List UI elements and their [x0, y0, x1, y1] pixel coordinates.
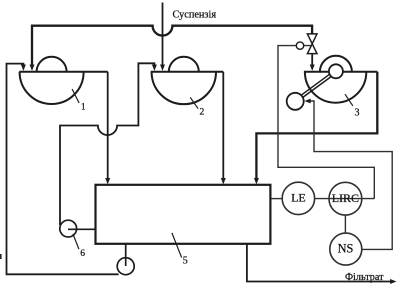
- svg-text:3: 3: [355, 108, 360, 119]
- svg-text:Фільтрат: Фільтрат: [345, 272, 384, 283]
- svg-text:LIRC: LIRC: [332, 191, 359, 205]
- svg-text:6: 6: [80, 249, 85, 259]
- svg-text:1: 1: [81, 101, 86, 111]
- svg-text:LE: LE: [291, 191, 306, 205]
- svg-text:NS: NS: [338, 242, 354, 256]
- svg-text:2: 2: [200, 108, 205, 118]
- svg-text:Суспензія: Суспензія: [173, 10, 217, 21]
- svg-text:5: 5: [183, 255, 188, 266]
